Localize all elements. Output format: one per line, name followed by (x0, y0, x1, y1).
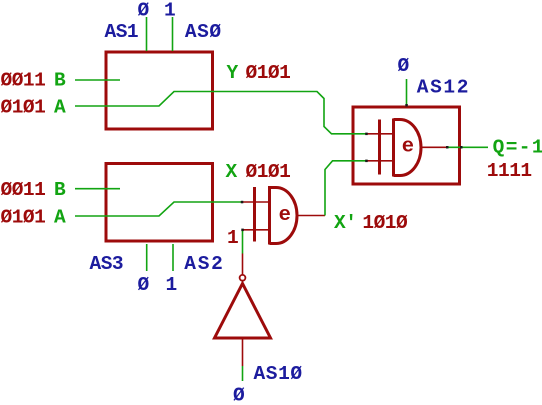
XNOR gate G1 body flat side (268, 186, 271, 245)
svg-text:AS3: AS3 (90, 253, 124, 275)
wire net X' up to U3 (325, 161, 367, 216)
wire AS0 select input top (172, 17, 174, 51)
wire net Q output (447, 146, 488, 148)
inverter Q3 triangle (215, 284, 271, 339)
mux U2 (AS3/AS2) body (106, 164, 213, 242)
XNOR gate G1 body arc (270, 188, 298, 244)
svg-text:Ø: Ø (138, 0, 150, 22)
svg-text:X': X' (334, 212, 356, 234)
wire below inverter red part (242, 339, 244, 366)
XNOR gate G1 input bar (253, 187, 256, 242)
pin stub G2 input A red segment (367, 133, 393, 135)
XNOR gate G2 input bar (378, 120, 381, 175)
svg-text:Ø1Ø1: Ø1Ø1 (246, 161, 291, 183)
component U3 (AS12) body box (353, 107, 460, 184)
svg-text:1: 1 (166, 274, 177, 296)
XNOR gate G2 body arc (394, 120, 422, 176)
svg-text:e: e (279, 204, 291, 227)
svg-text:Ø1Ø1: Ø1Ø1 (1, 96, 46, 118)
wire AS2 select input bottom (172, 244, 174, 271)
wire B input to U1 (75, 79, 120, 81)
wire B input to U2 (75, 188, 120, 190)
pin stub G1 input B (from inverter) (242, 229, 268, 231)
junction dot G2 input B transition (365, 160, 368, 163)
svg-text:A: A (54, 96, 66, 118)
junction dot AS12 wire at U3 top (405, 104, 408, 107)
svg-text:Ø1Ø1: Ø1Ø1 (246, 62, 291, 84)
svg-text:Ø: Ø (138, 274, 150, 296)
svg-text:B: B (54, 70, 66, 92)
junction dot G2 input A transition (365, 133, 368, 136)
junction dot at G1 input B corner (241, 229, 244, 232)
svg-text:A: A (54, 207, 66, 229)
junction dot net X at G1 input (241, 201, 244, 204)
wire A input through U1 to net Y (75, 92, 367, 134)
svg-text:AS1: AS1 (105, 21, 139, 43)
pin stub G2 output red segment (421, 146, 447, 148)
svg-text:1: 1 (164, 0, 175, 22)
wire from G1 input B down to inverter bubble (green part) (242, 230, 244, 254)
wire AS3 select input bottom (146, 244, 148, 271)
svg-text:Y: Y (227, 62, 239, 84)
wire AS12 select input (406, 79, 408, 106)
inverter Q3 bubble (240, 275, 246, 281)
svg-text:ASØ: ASØ (185, 21, 222, 43)
svg-text:1Ø1Ø: 1Ø1Ø (362, 212, 408, 234)
pin stub G1 input A (net X) (242, 201, 268, 203)
svg-text:Ø: Ø (233, 384, 245, 405)
svg-text:1111: 1111 (487, 160, 532, 182)
pin stub G1 output (298, 215, 326, 217)
svg-text:B: B (54, 179, 66, 201)
svg-text:e: e (402, 136, 414, 159)
wire red part above bubble (242, 254, 244, 275)
wire below inverter green part (AS10 input) (242, 366, 244, 381)
svg-text:AS1Ø: AS1Ø (254, 363, 303, 385)
svg-text:1: 1 (227, 227, 238, 249)
wire AS1 select input top (146, 17, 148, 51)
svg-text:Ø1Ø1: Ø1Ø1 (1, 207, 46, 229)
XNOR gate G2 body flat side (392, 119, 395, 177)
svg-text:ØØ11: ØØ11 (1, 70, 46, 92)
pin stub G2 input B red segment (367, 160, 393, 162)
svg-text:Q=-1: Q=-1 (493, 136, 542, 158)
svg-text:X: X (226, 161, 238, 183)
svg-text:AS2: AS2 (184, 253, 224, 275)
mux U1 (AS1/AS0) body (106, 52, 213, 129)
junction dot Q at U3 border (460, 146, 463, 149)
svg-text:Ø: Ø (398, 55, 410, 77)
junction dot G2 output transition (446, 146, 449, 149)
svg-text:ØØ11: ØØ11 (1, 179, 46, 201)
svg-text:AS12: AS12 (417, 77, 470, 99)
wire A input through U2 to net X (75, 202, 242, 216)
